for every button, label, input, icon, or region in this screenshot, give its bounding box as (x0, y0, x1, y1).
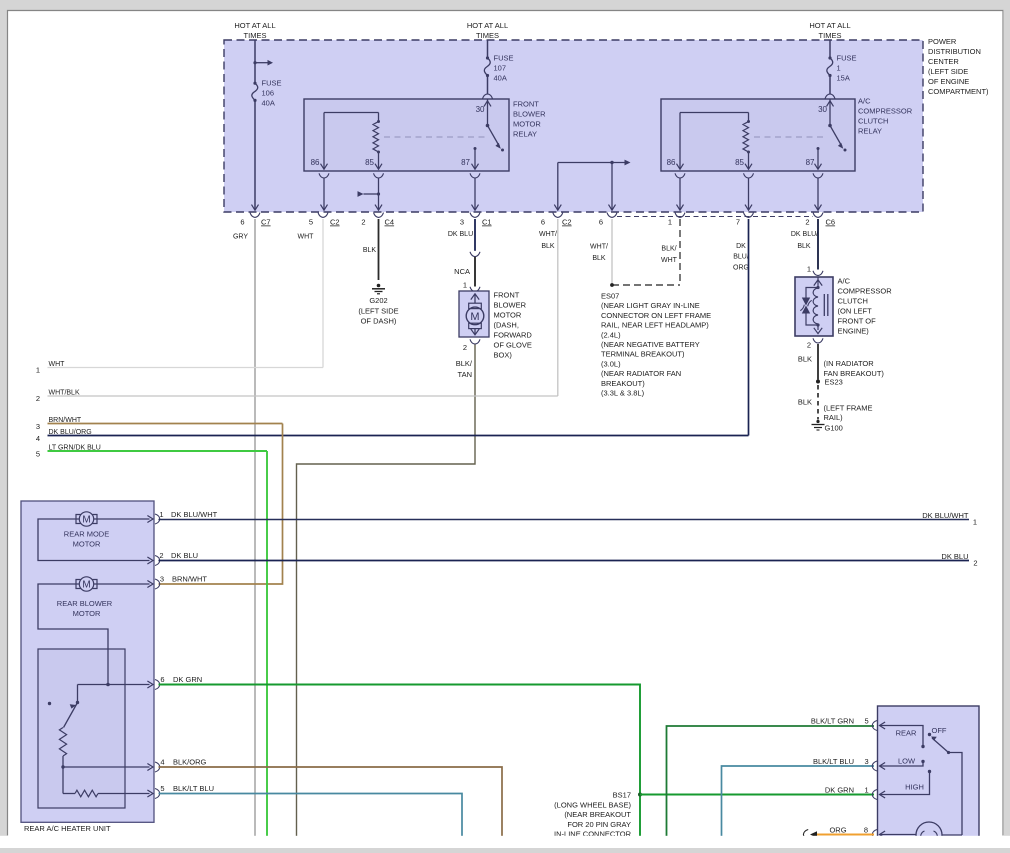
svg-text:DK BLU: DK BLU (171, 551, 198, 560)
a/c compressor clutch box (795, 277, 833, 336)
splice BS17 (638, 793, 642, 797)
svg-text:LOW: LOW (898, 757, 916, 766)
inline connector on C1 wire (470, 252, 480, 257)
svg-text:BOX): BOX) (494, 351, 513, 360)
svg-text:FUSE: FUSE (494, 54, 514, 63)
svg-text:MOTOR: MOTOR (73, 540, 101, 549)
switch blade in resistor block (64, 703, 78, 728)
resistor R2 (62, 767, 64, 794)
resistor block internals (106, 683, 110, 687)
svg-text:POWER: POWER (928, 37, 957, 46)
svg-text:85: 85 (365, 158, 374, 167)
svg-text:ENGINE): ENGINE) (838, 327, 870, 336)
node branch arrow off-page (253, 61, 256, 64)
svg-text:C2: C2 (562, 218, 572, 227)
front blower motor internals (471, 294, 479, 300)
pin 4 wire inside (63, 766, 150, 768)
relay U2 terminal 87 (817, 147, 820, 150)
svg-text:A/C: A/C (838, 277, 851, 286)
rear unit pin cups (155, 514, 160, 524)
svg-text:(LEFT SIDE: (LEFT SIDE (928, 67, 968, 76)
svg-text:TIMES: TIMES (476, 31, 499, 40)
svg-text:BLK/: BLK/ (456, 359, 473, 368)
wire BLK to ground G202 (378, 219, 380, 280)
front blower motor pin1 cup (470, 287, 480, 292)
svg-text:COMPRESSOR: COMPRESSOR (838, 287, 893, 296)
svg-text:DK BLU: DK BLU (941, 552, 968, 561)
svg-text:86: 86 (667, 158, 676, 167)
relay U2 linkage dashed (754, 136, 827, 138)
wire 87 to connector (474, 178, 476, 210)
svg-text:C1: C1 (482, 218, 492, 227)
svg-text:CENTER: CENTER (928, 57, 959, 66)
svg-text:3: 3 (160, 575, 164, 584)
relay U2 socket cups (675, 173, 685, 178)
relay U1 coil (324, 112, 379, 114)
svg-text:(NEAR LIGHT GRAY IN-LINE: (NEAR LIGHT GRAY IN-LINE (601, 301, 700, 310)
relay U2 coil (680, 112, 749, 114)
svg-text:HOT AT ALL: HOT AT ALL (809, 21, 850, 30)
svg-text:2: 2 (805, 218, 809, 227)
svg-text:40A: 40A (494, 74, 507, 83)
wire branch net horizontal (558, 162, 626, 164)
svg-text:FUSE: FUSE (262, 79, 282, 88)
power distribution center box (224, 40, 923, 212)
svg-text:TAN: TAN (458, 370, 472, 379)
svg-text:(2.4L): (2.4L) (601, 330, 621, 339)
svg-text:M: M (470, 311, 479, 323)
svg-text:BRN/WHT: BRN/WHT (49, 417, 82, 424)
svg-text:(LONG WHEEL BASE): (LONG WHEEL BASE) (554, 800, 631, 809)
wire BLK/LT GRN (667, 726, 875, 848)
front blower motor pin2 cup (470, 339, 480, 344)
a/c clutch internals (817, 277, 819, 288)
svg-text:15A: 15A (837, 74, 850, 83)
wire branch to es07 feed (611, 163, 613, 210)
wire hot-at-all-times feed 1 (254, 40, 256, 83)
svg-text:FRONT OF: FRONT OF (838, 317, 877, 326)
svg-text:30: 30 (818, 105, 827, 114)
rear heater resistor block inner box (38, 649, 125, 808)
ground G202 (377, 284, 381, 288)
wire WHT/BLK to ES07 (611, 219, 613, 285)
svg-text:MOTOR: MOTOR (513, 120, 541, 129)
svg-text:REAR: REAR (896, 729, 917, 738)
svg-text:40A: 40A (262, 99, 275, 108)
svg-text:2: 2 (159, 551, 163, 560)
wire row 3 BRN/WHT (48, 423, 283, 425)
svg-text:4: 4 (36, 434, 40, 443)
svg-text:FRONT: FRONT (513, 100, 539, 109)
wire U2-85 to connector (748, 178, 750, 210)
svg-text:OF DASH): OF DASH) (361, 317, 397, 326)
svg-text:WHT: WHT (298, 234, 315, 241)
svg-text:5: 5 (160, 784, 164, 793)
wire DK BLU/WHT row (159, 519, 970, 521)
svg-text:5: 5 (309, 218, 313, 227)
wire WHT/BLK from 6 C2 (557, 219, 559, 396)
node feed into wire 85 (358, 191, 364, 197)
svg-text:RELAY: RELAY (513, 130, 537, 139)
relay U1 pin 30 socket cup (483, 94, 493, 99)
svg-text:1: 1 (463, 281, 467, 290)
connector C6 dashed strip (617, 216, 813, 218)
wire row 1 WHT (48, 367, 324, 369)
svg-text:BLK/: BLK/ (661, 246, 676, 253)
svg-text:3: 3 (36, 422, 40, 431)
svg-text:OF ENGINE: OF ENGINE (928, 77, 969, 86)
rear mode motor wires (94, 518, 150, 520)
svg-text:CLUTCH: CLUTCH (838, 297, 868, 306)
svg-text:BLK: BLK (541, 243, 555, 250)
svg-text:RAIL): RAIL) (824, 413, 844, 422)
svg-text:(ON LEFT: (ON LEFT (838, 307, 873, 316)
svg-text:C2: C2 (330, 218, 340, 227)
wire U2-86 to connector (679, 178, 681, 210)
svg-text:(LEFT FRAME: (LEFT FRAME (824, 404, 873, 413)
svg-text:FORWARD: FORWARD (494, 331, 533, 340)
svg-text:6: 6 (160, 675, 164, 684)
switch second contact (48, 702, 51, 705)
svg-text:1: 1 (865, 786, 869, 795)
svg-text:TIMES: TIMES (244, 31, 267, 40)
relay U1 switch blade (488, 126, 500, 147)
svg-text:MOTOR: MOTOR (73, 609, 101, 618)
svg-text:BREAKOUT): BREAKOUT) (601, 379, 645, 388)
svg-text:FRONT: FRONT (494, 291, 520, 300)
svg-text:DK GRN: DK GRN (825, 786, 854, 795)
svg-text:(NEAR RADIATOR FAN: (NEAR RADIATOR FAN (601, 369, 681, 378)
svg-text:WHT: WHT (661, 257, 678, 264)
svg-text:WHT/: WHT/ (590, 244, 608, 251)
svg-text:NCA: NCA (454, 267, 470, 276)
svg-text:CONNECTOR ON LEFT FRAME: CONNECTOR ON LEFT FRAME (601, 311, 711, 320)
svg-text:106: 106 (262, 89, 275, 98)
wire hot-at-all-times feed 3 (829, 40, 831, 58)
svg-text:REAR MODE: REAR MODE (64, 530, 109, 539)
pin 5 wire inside (98, 793, 150, 795)
svg-text:TIMES: TIMES (819, 31, 842, 40)
svg-text:3: 3 (460, 218, 464, 227)
wire DK BLU row (159, 560, 970, 562)
rear blower motor M3 symbol (79, 577, 93, 591)
svg-text:TERMINAL BREAKOUT): TERMINAL BREAKOUT) (601, 350, 685, 359)
a/c clutch pin2 cup (813, 338, 823, 343)
svg-text:BLK: BLK (797, 243, 811, 250)
rear a/c heater unit box (21, 501, 154, 822)
svg-text:2: 2 (807, 341, 811, 350)
svg-text:GRY: GRY (233, 234, 248, 241)
svg-text:DK BLU/WHT: DK BLU/WHT (922, 511, 969, 520)
svg-text:BLK/LT BLU: BLK/LT BLU (813, 757, 854, 766)
svg-text:2: 2 (36, 394, 40, 403)
wire DK BLU to front blower motor (474, 219, 476, 251)
wire DK BLU/BLK (817, 219, 819, 270)
wire BLK dashed to ground (817, 385, 819, 420)
wire GRY (254, 219, 256, 848)
rear blower motor wires (94, 583, 150, 585)
svg-text:1: 1 (668, 218, 672, 227)
svg-text:DK BLU/ORG: DK BLU/ORG (49, 429, 92, 436)
svg-text:C7: C7 (261, 218, 271, 227)
wire BLK/LT BLU from rear unit (159, 794, 463, 849)
svg-text:85: 85 (735, 158, 744, 167)
svg-text:ES07: ES07 (601, 292, 619, 301)
svg-text:1: 1 (36, 366, 40, 375)
relay U2 switch blade (830, 126, 842, 147)
fuse F106 40A (253, 82, 256, 85)
svg-text:(IN RADIATOR: (IN RADIATOR (824, 359, 875, 368)
a/c clutch pin1 cup (813, 271, 823, 276)
svg-text:1: 1 (807, 265, 811, 274)
relay U1 socket cups (319, 173, 329, 178)
svg-text:8: 8 (864, 826, 868, 835)
svg-text:3: 3 (865, 757, 869, 766)
relay U1 pin 30 (487, 100, 489, 126)
wire BLK/ORG (159, 767, 503, 836)
wire DK BLU/ORG (748, 219, 750, 436)
svg-text:6: 6 (541, 218, 545, 227)
svg-text:BLU/: BLU/ (733, 254, 749, 261)
svg-text:87: 87 (806, 158, 815, 167)
svg-text:A/C: A/C (858, 97, 871, 106)
svg-text:1: 1 (973, 518, 977, 527)
svg-text:REAR A/C HEATER UNIT: REAR A/C HEATER UNIT (24, 824, 111, 833)
svg-text:(LEFT SIDE: (LEFT SIDE (358, 307, 398, 316)
wire 86 to connector (323, 178, 325, 210)
svg-text:COMPARTMENT): COMPARTMENT) (928, 87, 989, 96)
svg-text:RELAY: RELAY (858, 127, 882, 136)
svg-text:OFF: OFF (932, 726, 947, 735)
svg-text:CLUTCH: CLUTCH (858, 117, 888, 126)
svg-text:WHT: WHT (49, 361, 66, 368)
svg-text:BLK/ORG: BLK/ORG (173, 758, 207, 767)
svg-text:DK BLU/WHT: DK BLU/WHT (171, 510, 218, 519)
svg-text:ORG: ORG (829, 826, 846, 835)
svg-text:ES23: ES23 (825, 378, 843, 387)
relay U1 terminal 87 (474, 147, 477, 150)
wire BLK/WHT dashed (679, 219, 681, 285)
connector cups on PDC bottom edge (250, 213, 260, 218)
svg-text:FOR 20 PIN GRAY: FOR 20 PIN GRAY (567, 820, 631, 829)
svg-text:HOT AT ALL: HOT AT ALL (467, 21, 508, 30)
svg-text:HOT AT ALL: HOT AT ALL (234, 21, 275, 30)
relay U1 linkage dashed (384, 136, 485, 138)
svg-text:2: 2 (361, 218, 365, 227)
svg-text:DK: DK (736, 243, 746, 250)
rear blower switch box (878, 706, 980, 850)
svg-text:RAIL, NEAR LEFT HEADLAMP): RAIL, NEAR LEFT HEADLAMP) (601, 321, 709, 330)
svg-text:1: 1 (159, 510, 163, 519)
svg-text:(NEAR NEGATIVE BATTERY: (NEAR NEGATIVE BATTERY (601, 340, 700, 349)
svg-text:WHT/BLK: WHT/BLK (49, 390, 80, 397)
svg-text:(NEAR BREAKOUT: (NEAR BREAKOUT (564, 810, 631, 819)
svg-text:DK GRN: DK GRN (173, 675, 202, 684)
svg-text:DK BLU/: DK BLU/ (791, 231, 818, 238)
svg-text:REAR BLOWER: REAR BLOWER (57, 599, 113, 608)
svg-text:7: 7 (736, 218, 740, 227)
svg-text:BLOWER: BLOWER (494, 301, 527, 310)
svg-text:(3.3L & 3.8L): (3.3L & 3.8L) (601, 389, 645, 398)
splice ES23 (816, 380, 820, 384)
relay U1 box (front blower motor relay) (304, 99, 509, 171)
svg-text:(DASH,: (DASH, (494, 321, 519, 330)
svg-text:DISTRIBUTION: DISTRIBUTION (928, 47, 981, 56)
svg-text:4: 4 (160, 758, 164, 767)
svg-text:1: 1 (837, 64, 841, 73)
switch pin cups (872, 721, 877, 731)
wire hot-at-all-times feed 2 (487, 40, 489, 58)
relay U2 box (a/c compressor clutch relay) (661, 99, 855, 171)
switch rear blower motor symbol (880, 831, 886, 838)
svg-text:BLK: BLK (592, 255, 606, 262)
svg-text:BLOWER: BLOWER (513, 110, 546, 119)
svg-text:2: 2 (973, 559, 977, 568)
svg-text:BLK: BLK (798, 398, 812, 407)
switch internals (880, 722, 886, 729)
svg-text:BLK/LT GRN: BLK/LT GRN (811, 717, 854, 726)
svg-text:M: M (82, 580, 90, 591)
svg-text:C4: C4 (385, 218, 395, 227)
wire WHT (322, 219, 324, 368)
svg-text:M: M (82, 515, 90, 526)
splice ES07 (610, 283, 614, 287)
wire DK GRN (159, 685, 641, 849)
fuse F1 15A (828, 56, 831, 59)
wire row 4 DK BLU/ORG (48, 435, 749, 437)
svg-text:(3.0L): (3.0L) (601, 359, 621, 368)
wire BLK/LT BLU to switch (722, 766, 875, 848)
svg-text:BLK: BLK (363, 247, 377, 254)
switch blade (932, 738, 949, 753)
svg-text:G202: G202 (369, 296, 387, 305)
svg-text:WHT/: WHT/ (539, 231, 557, 238)
resistor R1 (59, 728, 66, 757)
svg-text:5: 5 (36, 450, 40, 459)
wire row 2 WHT/BLK (48, 395, 558, 397)
rear mode motor M2 symbol (79, 512, 93, 526)
svg-text:107: 107 (494, 64, 507, 73)
svg-text:87: 87 (461, 158, 470, 167)
wire ORG off-page (812, 834, 874, 836)
svg-text:2: 2 (463, 343, 467, 352)
wire row 5 LT GRN/DK BLU (48, 450, 268, 452)
svg-text:6: 6 (240, 218, 244, 227)
relay U2 pin 30 socket cup (825, 94, 835, 99)
svg-text:ORG: ORG (733, 265, 749, 272)
svg-text:BRN/WHT: BRN/WHT (172, 575, 207, 584)
svg-text:G100: G100 (825, 424, 843, 433)
bottom white clip band (0, 836, 1010, 848)
svg-text:FUSE: FUSE (837, 54, 857, 63)
wire U2-87 to connector (817, 178, 819, 210)
svg-text:BLK: BLK (798, 355, 812, 364)
svg-text:HIGH: HIGH (905, 783, 924, 792)
svg-text:BLK/LT BLU: BLK/LT BLU (173, 784, 214, 793)
relay U2 pin 30 (829, 100, 831, 126)
svg-text:OF GLOVE: OF GLOVE (494, 341, 532, 350)
svg-text:86: 86 (311, 158, 320, 167)
wire BLK below clutch (817, 344, 819, 380)
svg-text:6: 6 (599, 218, 603, 227)
svg-text:C6: C6 (826, 218, 836, 227)
front blower motor M1 box (459, 291, 489, 337)
fuse F107 40A (486, 56, 489, 59)
wire branch to 6 C2 (557, 163, 559, 210)
wire 85 to connector (378, 178, 380, 210)
svg-text:DK BLU: DK BLU (448, 231, 473, 238)
svg-text:5: 5 (865, 717, 869, 726)
svg-text:LT GRN/DK BLU: LT GRN/DK BLU (49, 445, 101, 452)
svg-text:MOTOR: MOTOR (494, 311, 522, 320)
ground G100 (816, 420, 819, 423)
svg-text:COMPRESSOR: COMPRESSOR (858, 107, 913, 116)
svg-text:BS17: BS17 (613, 791, 631, 800)
svg-text:30: 30 (476, 105, 485, 114)
